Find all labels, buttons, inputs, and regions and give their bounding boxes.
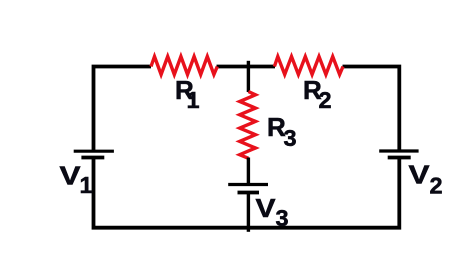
wire: top-right segment and right wire down to V2 (343, 67, 400, 152)
svg-text:3: 3 (284, 125, 297, 151)
battery V2 long plate (+) (379, 149, 418, 152)
resistor R2 zigzag (274, 57, 343, 75)
svg-text:2: 2 (430, 173, 443, 199)
resistor R1 zigzag (151, 57, 217, 75)
svg-text:V: V (60, 161, 82, 191)
wire: R3 bottom to V3 battery (247, 158, 250, 184)
wire: V3 to bottom rail with junction tick below (247, 193, 250, 232)
wire: top-left segment and left wire down to V1 (94, 67, 152, 152)
svg-text:3: 3 (276, 205, 289, 231)
battery V3 short plate (-) (238, 191, 260, 195)
svg-text:2: 2 (319, 87, 332, 113)
battery V1 short plate (-) (81, 156, 104, 160)
svg-text:1: 1 (80, 172, 93, 198)
battery V3 long plate (+) (228, 183, 268, 186)
wire: top middle segment between R1 and R2 (217, 65, 276, 69)
resistor R3 zigzag (vertical) (240, 92, 256, 159)
svg-text:V: V (409, 160, 431, 190)
battery V1 long plate (+) (74, 150, 114, 153)
svg-text:1: 1 (187, 87, 200, 113)
svg-text:V: V (256, 193, 277, 223)
node junction: top middle tick above wire into R3 branch (247, 61, 250, 92)
battery V2 short plate (-) (388, 156, 411, 160)
wire: left bottom, bottom rail, right bottom (V1 minus to V2 minus) (94, 157, 400, 228)
